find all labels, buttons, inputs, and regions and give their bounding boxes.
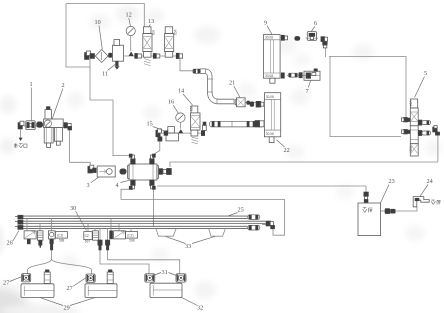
valve5 upper-left elbow (402, 117, 411, 122)
svg-text:1: 1 (30, 81, 33, 88)
valve V02 (165, 27, 177, 57)
rail1 end coupling (248, 215, 260, 220)
label 15 (147, 121, 167, 132)
coupling before V01 (135, 53, 142, 58)
svg-text:32: 32 (197, 305, 203, 312)
bolt on box2 (107, 270, 113, 284)
svg-text:24: 24 (427, 178, 433, 185)
nozzle N1 (98, 240, 102, 250)
manifold 4 (128, 164, 159, 180)
label 4 (116, 180, 130, 189)
cylinder box 1 (21, 284, 54, 298)
wire fitting to bracket24 (396, 207, 418, 211)
gauge 12 (126, 26, 135, 56)
coupling after V02 (176, 53, 182, 58)
valve5 right stub lower (418, 130, 430, 135)
svg-text:30.08: 30.08 (265, 36, 273, 40)
label 21 (229, 80, 240, 98)
label 30 (70, 205, 87, 231)
bracket 33b (209, 229, 226, 237)
svg-text:25: 25 (238, 207, 244, 214)
label 12 (126, 12, 132, 27)
wire FRL out down to check valve (70, 129, 91, 167)
check valve elbow (88, 165, 96, 173)
svg-text:598: 598 (59, 238, 65, 242)
wire tube joint ticks (200, 68, 234, 104)
nozzle under A1 (27, 239, 30, 244)
feed N2 to box3 right (108, 250, 180, 274)
valve5 right elbow (433, 126, 440, 136)
junction arrow stage2 (178, 129, 183, 133)
cyl22 upper port fitting (250, 101, 264, 107)
injector A3 (48, 231, 55, 250)
FRL outlet coupling (64, 123, 72, 130)
manifold port TL (129, 154, 135, 164)
svg-text:3: 3 (87, 182, 90, 189)
manifold port BR (150, 180, 156, 189)
label 29 (40, 298, 95, 312)
manifold port TR (150, 154, 156, 164)
rail left caps (15, 215, 23, 229)
cyl22 lower port fitting (255, 121, 264, 127)
wire comp6 riser to loop (325, 48, 327, 58)
wire stage2 drain to manifold (154, 139, 160, 155)
svg-text:6: 6 (314, 20, 317, 27)
label 26 (7, 231, 20, 247)
wire main pipe stage1 (84, 55, 180, 57)
svg-text:V04: V04 (409, 101, 413, 107)
inlet flange fitting (26, 121, 35, 130)
manifold right port (159, 168, 171, 174)
fitting between V01 V02 (153, 53, 160, 58)
wire thick tube outer (200, 71, 234, 101)
fitting dot after filter (109, 53, 113, 57)
nozzle N2 (105, 240, 109, 250)
svg-text:5: 5 (424, 70, 427, 77)
wire manifold BR drop to rails (153, 189, 155, 227)
CZ block C (126, 232, 138, 243)
inlet dark oval (37, 122, 43, 128)
wire drop after V02 (180, 59, 193, 71)
valve5 lower-left elbow (402, 129, 411, 134)
regulator 15 (164, 127, 178, 141)
rail 1 (18, 216, 248, 218)
text inlet (14, 143, 27, 148)
label 14 (178, 88, 193, 106)
feed curves to boxes 1 2 (28, 250, 52, 274)
FRL unit 2 (44, 107, 64, 148)
wire loop right top (329, 57, 406, 118)
svg-text:16: 16 (168, 99, 174, 106)
dark oval after check valve (120, 169, 126, 174)
flange F4 (176, 274, 186, 282)
svg-text:13: 13 (148, 18, 154, 25)
wire inlet pipe (24, 125, 44, 127)
label 22 (277, 140, 290, 154)
svg-text:21: 21 (229, 80, 235, 87)
wire loop left (330, 57, 401, 137)
wire Y2 manifold to rail2 loop (121, 188, 285, 235)
small bar C0 (110, 231, 113, 239)
cyl9 top port fitting (281, 35, 287, 40)
rail3 end coupling (248, 225, 260, 230)
label 31 (151, 269, 179, 277)
svg-text:2: 2 (62, 82, 65, 89)
label 24 (420, 178, 433, 196)
svg-text:14: 14 (178, 88, 184, 95)
label 10 (95, 19, 103, 49)
wire Y1 manifold to box23 (157, 186, 366, 192)
wire pilot loop top (66, 4, 144, 28)
svg-text:29: 29 (64, 305, 70, 312)
capsule coupling on drop line (193, 69, 200, 73)
svg-text:9: 9 (264, 20, 267, 27)
box 23 (358, 203, 381, 236)
wire main feed down from elbow to manifold (90, 59, 131, 156)
cylinder box 2 (85, 284, 117, 298)
label 3 (87, 177, 99, 189)
valve V01 (143, 27, 155, 66)
fitting right of box23 (385, 209, 395, 214)
svg-text:(CZ): (CZ) (57, 234, 63, 238)
wire cyl9 bottom to block7 (287, 75, 304, 77)
wire pilot loop left (66, 4, 90, 68)
box23 top fitting (364, 192, 369, 203)
valve5 right stub upper (418, 120, 430, 125)
svg-text:15: 15 (147, 121, 153, 128)
label 16 (168, 99, 178, 114)
svg-text:CZ: CZ (85, 234, 89, 238)
hanging valve A1 (24, 231, 36, 239)
svg-text:23: 23 (389, 178, 395, 185)
wire thick tube inner (200, 71, 234, 101)
svg-text:4: 4 (116, 182, 119, 189)
valve 6 (306, 32, 318, 41)
label 6 (311, 20, 317, 31)
injector B2 (93, 231, 99, 240)
label 1 (30, 81, 33, 120)
rail 3 (18, 226, 248, 228)
manifold port BL (129, 180, 135, 189)
inlet elbow 1 (18, 121, 24, 141)
svg-text:27: 27 (3, 280, 9, 287)
svg-text:10: 10 (95, 19, 101, 26)
cylinder 22 (264, 93, 280, 143)
injector A2 (37, 231, 43, 248)
label 27 b (67, 278, 86, 292)
label 32 (182, 297, 204, 311)
svg-text:V03: V03 (189, 106, 193, 112)
svg-text:597: 597 (85, 240, 91, 244)
svg-text:31: 31 (162, 269, 168, 276)
regulator 11 body (113, 40, 124, 70)
svg-text:30: 30 (70, 205, 76, 212)
valve block 7 (304, 69, 320, 80)
wire block21 to cyl22 (245, 102, 256, 104)
valve V03 (189, 106, 200, 145)
bolt on box1 (44, 270, 50, 284)
svg-text:V02: V02 (173, 30, 177, 36)
svg-text:27: 27 (67, 285, 73, 292)
cylinder 9 (264, 35, 281, 84)
svg-text:30.08: 30.08 (265, 74, 273, 78)
elbow right of 6 (321, 37, 328, 48)
label 2 (52, 82, 65, 120)
gauge 16 (176, 113, 185, 129)
wire long return line L1 (170, 162, 438, 167)
label 5 (415, 70, 428, 98)
valve 5 column (409, 99, 419, 156)
CZ block A (55, 232, 67, 243)
valve block 21 (235, 98, 250, 107)
hanging valve C1 (114, 231, 126, 239)
svg-text:7: 7 (306, 88, 309, 95)
elbow fitting stage2 inlet (156, 129, 162, 141)
filter 10 diamond (95, 50, 108, 63)
elbow right of V03 up (201, 122, 206, 136)
svg-text:12: 12 (126, 12, 132, 19)
flange F1 (22, 274, 31, 282)
wire box23 to fitting (381, 210, 386, 212)
rail 2 (18, 221, 266, 223)
bracket 24 (413, 197, 429, 207)
label 33 (166, 236, 216, 250)
CZ block B (84, 232, 92, 244)
svg-text:598: 598 (129, 238, 135, 242)
svg-text:(CZ): (CZ) (127, 234, 133, 238)
label 27 a (3, 277, 21, 287)
svg-text:30.08: 30.08 (266, 95, 274, 99)
label 9 (264, 20, 272, 35)
dark oval between 9 and 6 (295, 36, 300, 40)
label 13 (148, 18, 154, 27)
svg-text:30.08: 30.08 (266, 132, 274, 136)
cylinder box 3 (150, 283, 182, 297)
label 25 (228, 207, 244, 217)
bracket 33a (156, 229, 176, 237)
text source24 (431, 200, 440, 205)
svg-text:22: 22 (284, 147, 290, 154)
long tube to cyl22 (210, 121, 264, 127)
flange F3 (145, 274, 155, 282)
wire rail2 to elbow (262, 224, 266, 226)
elbow fitting stage1 inlet (85, 51, 95, 60)
rail2 end elbow (266, 221, 275, 229)
svg-text:11: 11 (102, 71, 108, 78)
svg-text:V01: V01 (151, 30, 155, 36)
svg-text:33: 33 (185, 243, 191, 250)
wire valve5 right drop (437, 135, 439, 163)
drop lines to hanging units (27, 218, 131, 240)
label 7 (306, 81, 311, 95)
flange F2 (86, 274, 95, 282)
check valve 3 (97, 166, 115, 177)
label 23 (380, 178, 394, 204)
svg-text:26: 26 (7, 240, 13, 247)
cyl9 bottom port fitting (281, 73, 302, 79)
wire stage2 main pipe (160, 132, 204, 134)
svg-text:V05: V05 (409, 146, 413, 152)
feed N1 to box3 left (100, 250, 149, 274)
label 11 (102, 64, 116, 78)
